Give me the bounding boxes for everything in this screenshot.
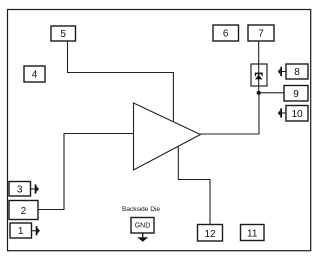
diode D1 enclosure	[251, 64, 267, 86]
svg-text:4: 4	[32, 70, 38, 81]
pad 9	[284, 86, 308, 102]
svg-text:3: 3	[17, 185, 23, 196]
pad 1	[10, 223, 32, 238]
svg-text:Backside Die: Backside Die	[122, 206, 160, 213]
GND pad	[131, 218, 154, 234]
wire amp output to node A	[200, 93, 259, 134]
wire amp bottom slope to pad 12	[178, 146, 210, 225]
svg-text:12: 12	[204, 229, 216, 240]
pad 2	[9, 201, 38, 220]
svg-text:2: 2	[21, 206, 27, 217]
svg-text:10: 10	[291, 109, 303, 120]
wire node A through diode to pad 7	[258, 41, 260, 93]
wire pad2 to amp input (left edge)	[38, 134, 134, 210]
pad 11	[241, 225, 265, 241]
svg-text:5: 5	[60, 29, 66, 40]
pad 5	[51, 26, 76, 41]
svg-text:GND: GND	[135, 223, 151, 230]
pad 12	[198, 225, 223, 242]
wire node A to pad 9	[259, 92, 284, 94]
svg-text:7: 7	[258, 29, 264, 40]
pad 10 port symbol	[278, 108, 286, 117]
pad 4	[24, 66, 45, 82]
ground stub	[142, 233, 144, 237]
ground symbol	[137, 237, 148, 242]
pad 8 port symbol	[278, 67, 286, 76]
pad 3 port symbol	[31, 184, 39, 193]
pad 3	[9, 182, 31, 197]
svg-text:1: 1	[18, 226, 24, 237]
svg-text:11: 11	[247, 229, 258, 240]
diode D1	[255, 73, 263, 80]
pad 1 port symbol	[32, 226, 40, 235]
node A junction dot	[257, 91, 261, 95]
pad 7	[248, 25, 274, 41]
svg-text:8: 8	[294, 67, 300, 78]
pad 8	[286, 64, 308, 79]
op-amp U1	[134, 103, 201, 170]
svg-text:6: 6	[223, 29, 229, 40]
svg-text:9: 9	[293, 89, 299, 100]
pad 10	[286, 106, 308, 122]
wire pad5 to amp input (top slope)	[68, 41, 174, 122]
pad 6	[213, 25, 239, 41]
